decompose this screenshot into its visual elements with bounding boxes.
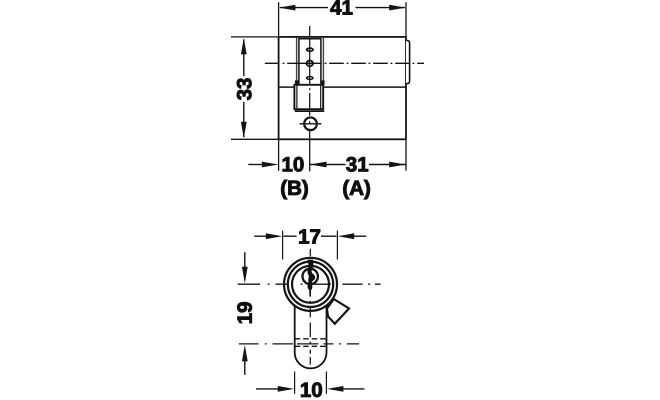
screw slot line bbox=[300, 123, 322, 125]
screw hole oval 1 bbox=[306, 47, 314, 52]
horizontal centerline top view bbox=[265, 62, 424, 64]
dim 17 line segments bbox=[284, 235, 297, 237]
hidden screw hole line 1 bbox=[295, 338, 327, 340]
dim 17 right extension line bbox=[336, 231, 338, 260]
dim 31 text bbox=[346, 157, 368, 172]
dim 33 top extension line bbox=[231, 36, 279, 38]
dim 33 bottom extension line bbox=[231, 138, 279, 140]
fin left line bbox=[294, 306, 296, 353]
dim 10 bottom right extension line bbox=[325, 372, 327, 394]
vertical centerline bottom view bbox=[309, 249, 311, 365]
outer circle bbox=[284, 258, 337, 311]
dim 31 line bbox=[310, 164, 346, 166]
screw hole oval 2 bbox=[306, 60, 314, 68]
dim 17 text bbox=[299, 229, 320, 243]
screw hole oval 3 bbox=[306, 76, 314, 80]
dim 10 left outside arrow head bbox=[262, 162, 279, 168]
clip channel left foot bbox=[295, 80, 299, 85]
keyway silhouette bbox=[307, 260, 315, 297]
cam box bbox=[294, 85, 323, 109]
dim 19 top arrow head bbox=[242, 267, 248, 284]
ring 3 bbox=[292, 266, 329, 303]
dim 33 line bbox=[243, 40, 245, 77]
dim 31 right arrow bbox=[389, 162, 406, 168]
cylinder body side view bbox=[279, 37, 406, 139]
clip channel outer left line bbox=[296, 38, 298, 85]
dim 19 text bbox=[237, 302, 252, 323]
dim 41 left extension line bbox=[278, 2, 280, 37]
clip channel outer right line bbox=[322, 38, 324, 85]
dim 19 bottom arrow tail bbox=[244, 361, 246, 375]
right end cap bbox=[406, 41, 410, 84]
dim 10 text bbox=[283, 157, 304, 172]
clip channel inner rectangle bbox=[299, 39, 321, 84]
dim 10 bottom right arrow bbox=[327, 386, 344, 392]
dim 19 top arrow tail bbox=[244, 252, 246, 268]
dim 10 bottom text bbox=[301, 383, 322, 398]
dim 10 left outside arrow tail bbox=[248, 164, 263, 166]
dim 17 right arrow bbox=[338, 233, 355, 239]
dim 41 line bbox=[280, 7, 328, 9]
hidden screw hole line 2 bbox=[295, 345, 327, 347]
clip channel right foot bbox=[321, 80, 325, 85]
label (B) bbox=[281, 180, 307, 199]
dim 33 text bbox=[237, 78, 252, 100]
dim 41 right extension line bbox=[405, 2, 407, 37]
dim 41 text bbox=[330, 0, 352, 14]
left extension line below body bbox=[278, 140, 280, 171]
dim 10 bottom left extension line bbox=[294, 372, 296, 394]
cam tab bbox=[327, 299, 349, 324]
fin right line bbox=[326, 306, 328, 353]
lower centerline bottom view bbox=[239, 343, 359, 345]
dim 31 left arrow bbox=[310, 162, 327, 168]
dim 41 left arrow bbox=[279, 5, 296, 11]
dim 10 bottom left arrow bbox=[256, 388, 279, 390]
screw head circle bbox=[304, 117, 317, 130]
dim 17 left extension line bbox=[282, 231, 284, 260]
dim 19 bottom arrow head bbox=[242, 345, 248, 362]
barrel bottom line bbox=[279, 86, 406, 88]
dim 17 left arrow bbox=[254, 235, 267, 237]
right extension line below body bbox=[405, 140, 407, 171]
dim 41 right arrow bbox=[389, 5, 406, 11]
ring 2 bbox=[288, 262, 333, 307]
dim 33 bottom arrow bbox=[241, 122, 247, 139]
upper centerline bottom view bbox=[238, 283, 381, 285]
fin bottom arc bbox=[295, 353, 327, 369]
plug circle bbox=[303, 269, 318, 284]
vertical centerline top view bbox=[309, 26, 311, 171]
label (A) bbox=[343, 180, 369, 199]
dim 33 top arrow bbox=[241, 38, 247, 55]
